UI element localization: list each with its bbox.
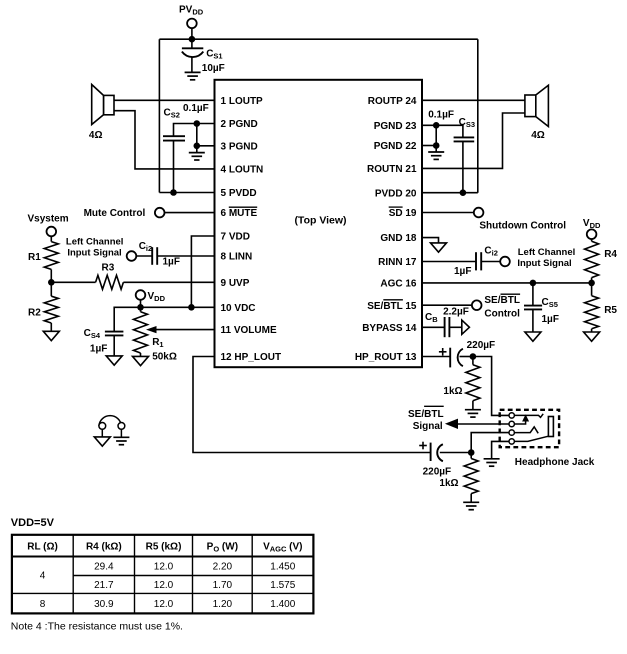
svg-text:1µF: 1µF <box>163 257 180 268</box>
node SE/BTL Control terminal <box>472 300 482 310</box>
resistor R1 <box>44 242 58 270</box>
svg-text:Left Channel: Left Channel <box>66 236 124 247</box>
plus sign top 220uF <box>439 348 447 356</box>
svg-text:7 VDD: 7 VDD <box>221 232 250 243</box>
svg-text:1.400: 1.400 <box>270 599 295 610</box>
svg-text:Mute Control: Mute Control <box>84 208 146 219</box>
ground CS4 <box>106 356 122 365</box>
svg-text:R1: R1 <box>152 337 163 349</box>
ground 1k bottom <box>463 502 479 509</box>
svg-text:R4: R4 <box>604 249 617 260</box>
svg-text:Vsystem: Vsystem <box>28 214 69 225</box>
wire potentiometer bottom to ground <box>140 353 142 356</box>
node VDD/pot <box>137 304 144 311</box>
wire pin 15 SE/BTL to control terminal <box>422 304 472 306</box>
resistor 1k top (HP_ROUT) <box>466 365 480 401</box>
wire R1 to R2 through node <box>50 269 52 296</box>
wire pin 12 HP_LOUT to bottom 220uF cap <box>193 357 431 453</box>
wire pin 2 PGND to CS2 top <box>174 124 215 137</box>
svg-text:Headphone Jack: Headphone Jack <box>515 457 595 468</box>
svg-text:CS2: CS2 <box>164 108 180 120</box>
wire divider node to R3 <box>51 281 95 283</box>
svg-text:12.0: 12.0 <box>154 562 174 573</box>
wire pin3 ground stub <box>196 146 198 153</box>
node 220uF/1k top <box>470 353 477 360</box>
wire LOUTN: left speaker to pin 4 <box>114 111 215 169</box>
svg-text:PO (W): PO (W) <box>207 541 238 553</box>
svg-text:1.70: 1.70 <box>213 580 233 591</box>
svg-text:ROUTN 21: ROUTN 21 <box>367 164 417 175</box>
svg-text:0.1µF: 0.1µF <box>428 110 454 121</box>
ground potentiometer R_1 <box>133 356 149 365</box>
ground 1k top <box>465 410 481 417</box>
svg-text:BYPASS 14: BYPASS 14 <box>362 323 417 334</box>
wire node to headphone jack tip <box>473 357 509 416</box>
wire pin 24 ROUTP to right speaker <box>422 99 525 101</box>
wire input terminal to Ci2 <box>136 255 152 257</box>
wire pin 6 MUTE to control terminal <box>164 212 214 214</box>
svg-text:VAGC (V): VAGC (V) <box>263 541 302 553</box>
U1 pin 15 BTL overline <box>383 299 403 301</box>
wire CS5 to ground <box>532 309 534 332</box>
resistor R5 <box>585 296 599 329</box>
svg-text:1 LOUTP: 1 LOUTP <box>221 96 264 107</box>
capacitor 220uF top polarized <box>450 348 463 368</box>
ground pin 18 GND <box>431 243 447 252</box>
capacitor CS4 1uF <box>105 332 124 336</box>
svg-text:CS3: CS3 <box>459 117 475 129</box>
headphone jack plug-detect arrow <box>522 414 529 421</box>
headphone jack sleeve bar <box>548 417 553 437</box>
table VDD=5V characteristics <box>12 535 314 614</box>
wire PVDD right rail <box>477 39 479 193</box>
svg-text:1µF: 1µF <box>90 344 107 355</box>
svg-text:9 UVP: 9 UVP <box>221 278 250 289</box>
wire bottom 1k resistor lead <box>470 453 472 459</box>
ground R2 <box>43 331 59 340</box>
resistor R2 <box>44 296 58 323</box>
ground CS1 <box>185 72 201 79</box>
svg-text:5 PVDD: 5 PVDD <box>221 188 257 199</box>
wire node to headphone jack ring <box>471 433 509 453</box>
svg-text:12.0: 12.0 <box>154 599 174 610</box>
wire bottom 220uF cap to node <box>440 452 471 454</box>
svg-text:Signal: Signal <box>413 421 443 432</box>
label SE/BTL Control overline <box>501 293 521 295</box>
capacitor Ci2 left 1uF <box>152 247 157 265</box>
op-amp U1 IC body 24-pin (Top View) <box>215 80 423 367</box>
svg-text:VDD: VDD <box>583 218 601 230</box>
node 220uF/1k bottom <box>468 449 475 456</box>
svg-text:SE/BTL 15: SE/BTL 15 <box>367 301 417 312</box>
wire pin 16 AGC to R4/R5 node <box>422 282 592 284</box>
svg-text:12 HP_LOUT: 12 HP_LOUT <box>221 352 282 363</box>
wire pin 13 HP_ROUT to 220uF cap <box>422 356 450 358</box>
wire jack sleeve contact to ground <box>492 441 509 458</box>
wire pin22 ground stub <box>435 146 437 153</box>
svg-text:Ci2: Ci2 <box>484 246 498 258</box>
svg-text:Left Channel: Left Channel <box>518 247 576 258</box>
wire pin 7 VDD down to VDC node <box>191 236 214 307</box>
svg-text:12.0: 12.0 <box>154 580 174 591</box>
svg-text:SE/BTL: SE/BTL <box>408 409 444 420</box>
svg-text:2.2µF: 2.2µF <box>443 307 469 318</box>
wire PVDD top rail <box>159 38 477 40</box>
svg-text:RL (Ω): RL (Ω) <box>27 542 58 553</box>
wire AGC node to CS5 <box>532 283 534 306</box>
wire CS3 bottom to PVDD <box>462 141 464 192</box>
svg-text:Shutdown Control: Shutdown Control <box>479 221 566 232</box>
svg-text:8 LINN: 8 LINN <box>221 252 253 263</box>
capacitor CS3 0.1uF <box>454 137 475 141</box>
svg-text:10 VDC: 10 VDC <box>221 303 256 314</box>
svg-text:(Top View): (Top View) <box>294 214 346 226</box>
svg-text:SD 19: SD 19 <box>389 208 417 219</box>
ground pin2/pin3 PGND <box>189 153 205 160</box>
capacitor CS5 1uF <box>524 306 542 310</box>
wire top 220uF cap to node <box>460 356 473 358</box>
potentiometer wiper arrow <box>146 326 157 333</box>
node Shutdown Control terminal <box>474 208 484 218</box>
svg-text:CS5: CS5 <box>542 297 558 309</box>
SE/BTL signal arrowhead <box>445 419 458 429</box>
svg-text:21.7: 21.7 <box>94 580 114 591</box>
wire pin 23 PGND to CS3 top <box>422 125 463 137</box>
svg-text:AGC 16: AGC 16 <box>380 279 417 290</box>
node VDD terminal right <box>587 229 597 239</box>
ground pin22/pin23 PGND <box>428 152 444 159</box>
wire Vsystem terminal to R1 <box>50 236 52 242</box>
svg-text:PVDD: PVDD <box>179 5 204 17</box>
wire pin 20 PVDD <box>422 192 478 194</box>
headphone pictogram arc <box>99 416 122 426</box>
svg-text:1kΩ: 1kΩ <box>443 386 462 397</box>
headphone jack contact circle 3 <box>509 430 514 435</box>
wire pin 14 BYPASS to CB <box>422 326 444 328</box>
wire top 1k to ground <box>472 401 474 410</box>
wire pin 17 RINN to right Ci2 <box>422 261 476 263</box>
svg-text:RINN 17: RINN 17 <box>378 257 417 268</box>
node pin22 PGND <box>433 142 440 149</box>
svg-text:CS4: CS4 <box>84 328 101 340</box>
node Mute Control terminal <box>155 208 165 218</box>
wire LOUTP: left speaker to pin 1 <box>114 99 215 101</box>
svg-text:1µF: 1µF <box>454 266 471 277</box>
svg-text:CS1: CS1 <box>206 49 222 61</box>
potentiometer R_1 50k <box>134 312 148 353</box>
svg-text:4 LOUTN: 4 LOUTN <box>221 165 264 176</box>
wire pin 3 PGND stub <box>197 145 215 147</box>
wire PVDD left rail <box>158 39 160 192</box>
svg-text:ROUTP 24: ROUTP 24 <box>368 96 417 107</box>
speaker left 4ohm <box>92 85 114 125</box>
svg-text:11 VOLUME: 11 VOLUME <box>221 325 277 336</box>
svg-text:2 PGND: 2 PGND <box>221 119 258 130</box>
node right input terminal <box>500 257 510 267</box>
svg-text:220µF: 220µF <box>467 340 496 351</box>
headphone jack contact 4 line to sleeve <box>514 436 548 441</box>
svg-text:PGND 22: PGND 22 <box>374 141 417 152</box>
resistor R3 <box>96 275 124 289</box>
headphone pictogram left earpiece <box>99 423 106 430</box>
svg-text:R5 (kΩ): R5 (kΩ) <box>146 542 182 553</box>
svg-text:1.575: 1.575 <box>270 580 295 591</box>
svg-text:Input Signal: Input Signal <box>67 247 121 258</box>
resistor R4 <box>585 241 599 277</box>
wire SE/BTL signal line from jack <box>453 423 509 425</box>
svg-text:6 MUTE: 6 MUTE <box>221 208 258 219</box>
node PVDD/CS1 <box>189 36 196 43</box>
wire right Ci2 to input terminal <box>481 261 500 263</box>
svg-text:50kΩ: 50kΩ <box>152 352 177 363</box>
svg-text:1µF: 1µF <box>542 314 559 325</box>
svg-text:R1: R1 <box>28 252 41 263</box>
node pin3 PGND <box>194 143 201 150</box>
label SE/BTL Signal overline <box>424 405 444 407</box>
svg-text:30.9: 30.9 <box>94 599 114 610</box>
ground CS5 <box>525 332 541 341</box>
svg-text:Input Signal: Input Signal <box>517 258 571 269</box>
wire top 1k resistor leads <box>472 357 474 365</box>
wire pin 5 PVDD <box>159 192 214 194</box>
wire VDD right terminal to R4 <box>591 239 593 242</box>
svg-text:1.20: 1.20 <box>213 599 233 610</box>
node VDD terminal left <box>136 290 146 300</box>
node CS2/PVDD <box>170 189 177 196</box>
svg-text:1.450: 1.450 <box>270 562 295 573</box>
node pin7/pin10 <box>188 304 195 311</box>
headphone jack tip contact circle 1 <box>509 413 514 418</box>
capacitor CB open triangle <box>462 320 470 334</box>
wire CS2 bottom to PVDD <box>173 141 175 193</box>
svg-text:8: 8 <box>40 599 46 610</box>
svg-text:0.1µF: 0.1µF <box>183 103 209 114</box>
svg-text:Control: Control <box>484 308 520 319</box>
headphone jack contact circle 4 <box>509 439 514 444</box>
svg-text:R3: R3 <box>102 262 115 273</box>
svg-text:GND 18: GND 18 <box>380 233 417 244</box>
capacitor Ci2 right 1uF <box>476 252 481 270</box>
wire pin 10 VDC line to CS4 <box>114 307 214 331</box>
svg-text:4: 4 <box>40 571 46 582</box>
wire PVDD terminal stub <box>191 28 193 48</box>
svg-text:4Ω: 4Ω <box>89 130 103 141</box>
speaker right 4ohm <box>525 85 549 126</box>
wire pin 22 PGND stub <box>422 145 436 147</box>
wire R2 bottom to ground <box>50 323 52 331</box>
wire R4 to AGC node <box>591 278 593 283</box>
svg-text:2.20: 2.20 <box>213 562 233 573</box>
wire pin 21 ROUTN to right speaker <box>422 113 525 168</box>
wire pin 11 VOLUME wiper <box>153 329 215 331</box>
svg-text:220µF: 220µF <box>423 467 452 478</box>
wire CS4 bottom to ground <box>113 335 115 356</box>
resistor 1k bottom (HP_LOUT) <box>464 459 478 494</box>
node PVDD terminal <box>187 19 197 29</box>
svg-text:Ci2: Ci2 <box>139 241 153 253</box>
wire AGC node to R5 <box>591 283 593 296</box>
svg-text:R2: R2 <box>28 308 41 319</box>
svg-text:3 PGND: 3 PGND <box>221 141 258 152</box>
svg-text:CB: CB <box>425 312 438 324</box>
node left input terminal <box>127 251 137 261</box>
node R1/R2/R3 <box>48 279 55 286</box>
headphone jack dashed box <box>500 410 559 447</box>
svg-text:R5: R5 <box>604 305 617 316</box>
node R4/R5/AGC <box>588 280 595 287</box>
ground headphone jack sleeve <box>484 459 500 466</box>
wire VDD terminal to potentiometer <box>140 300 142 312</box>
wire pin 18 GND stub <box>422 238 439 243</box>
wire PGND link pin2-pin3 <box>196 124 198 146</box>
wire CB to open triangle <box>449 326 461 328</box>
svg-text:VDD: VDD <box>148 291 166 303</box>
svg-text:PVDD 20: PVDD 20 <box>375 188 417 199</box>
node pin23 PGND <box>433 122 440 129</box>
wire bottom 1k to ground <box>470 494 472 503</box>
ground headphone pictogram left <box>94 437 110 446</box>
svg-text:VDD=5V: VDD=5V <box>11 517 55 529</box>
headphone jack contact circle 2 <box>509 421 514 426</box>
wire Ci2 to pin 8 LINN <box>157 255 214 257</box>
headphone jack contact 1 line with break <box>514 414 543 418</box>
ground R5 <box>584 332 600 341</box>
wire pin 19 SD to shutdown terminal <box>422 212 474 214</box>
capacitor CS1 10uF polarized <box>182 48 203 57</box>
headphone jack contact 2 line <box>514 421 525 425</box>
node Vsystem terminal <box>47 227 57 237</box>
ground headphone pictogram right <box>113 437 129 444</box>
svg-text:HP_ROUT 13: HP_ROUT 13 <box>355 352 417 363</box>
capacitor CB 2.2uF <box>445 317 450 337</box>
svg-text:29.4: 29.4 <box>94 562 114 573</box>
headphone pictogram left stub <box>101 429 103 437</box>
headphone pictogram right stub <box>120 429 122 437</box>
capacitor 220uF bottom polarized <box>431 443 443 462</box>
svg-text:R4 (kΩ): R4 (kΩ) <box>86 542 122 553</box>
svg-text:1kΩ: 1kΩ <box>439 478 458 489</box>
wire R5 to ground <box>591 329 593 332</box>
wire PGND link pin23-pin22 <box>435 125 437 145</box>
svg-text:10µF: 10µF <box>202 63 225 74</box>
U1 pin 6 MUTE overline <box>229 206 257 208</box>
svg-text:Note 4 :The resistance must us: Note 4 :The resistance must use 1%. <box>11 620 183 632</box>
U1 pin 19 SD overline <box>389 206 403 208</box>
node CS3/PVDD <box>460 189 467 196</box>
capacitor CS2 0.1uF <box>163 136 185 140</box>
headphone pictogram right earpiece <box>118 423 125 430</box>
wire CS1 ground stub <box>191 57 193 73</box>
svg-text:4Ω: 4Ω <box>531 130 545 141</box>
node pin2 PGND <box>194 120 201 127</box>
node AGC/CS5 <box>530 280 537 287</box>
wire R3 to pin 9 UVP <box>123 281 214 283</box>
svg-text:SE/BTL: SE/BTL <box>484 295 520 306</box>
svg-text:PGND 23: PGND 23 <box>374 121 417 132</box>
plus sign bottom 220uF <box>419 442 427 450</box>
headphone jack contact 3 line with bend <box>514 427 538 433</box>
